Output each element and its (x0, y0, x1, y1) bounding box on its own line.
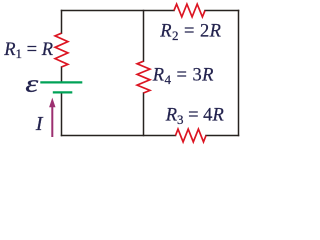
svg-text:R1 = R: R1 = R (3, 40, 53, 61)
svg-text:R3 = 4R: R3 = 4R (165, 106, 224, 127)
svg-text:I: I (35, 113, 44, 135)
svg-text:R4 = 3R: R4 = 3R (152, 66, 214, 87)
svg-text:R2 = 2R: R2 = 2R (159, 21, 221, 42)
svg-text:ε: ε (25, 70, 39, 97)
